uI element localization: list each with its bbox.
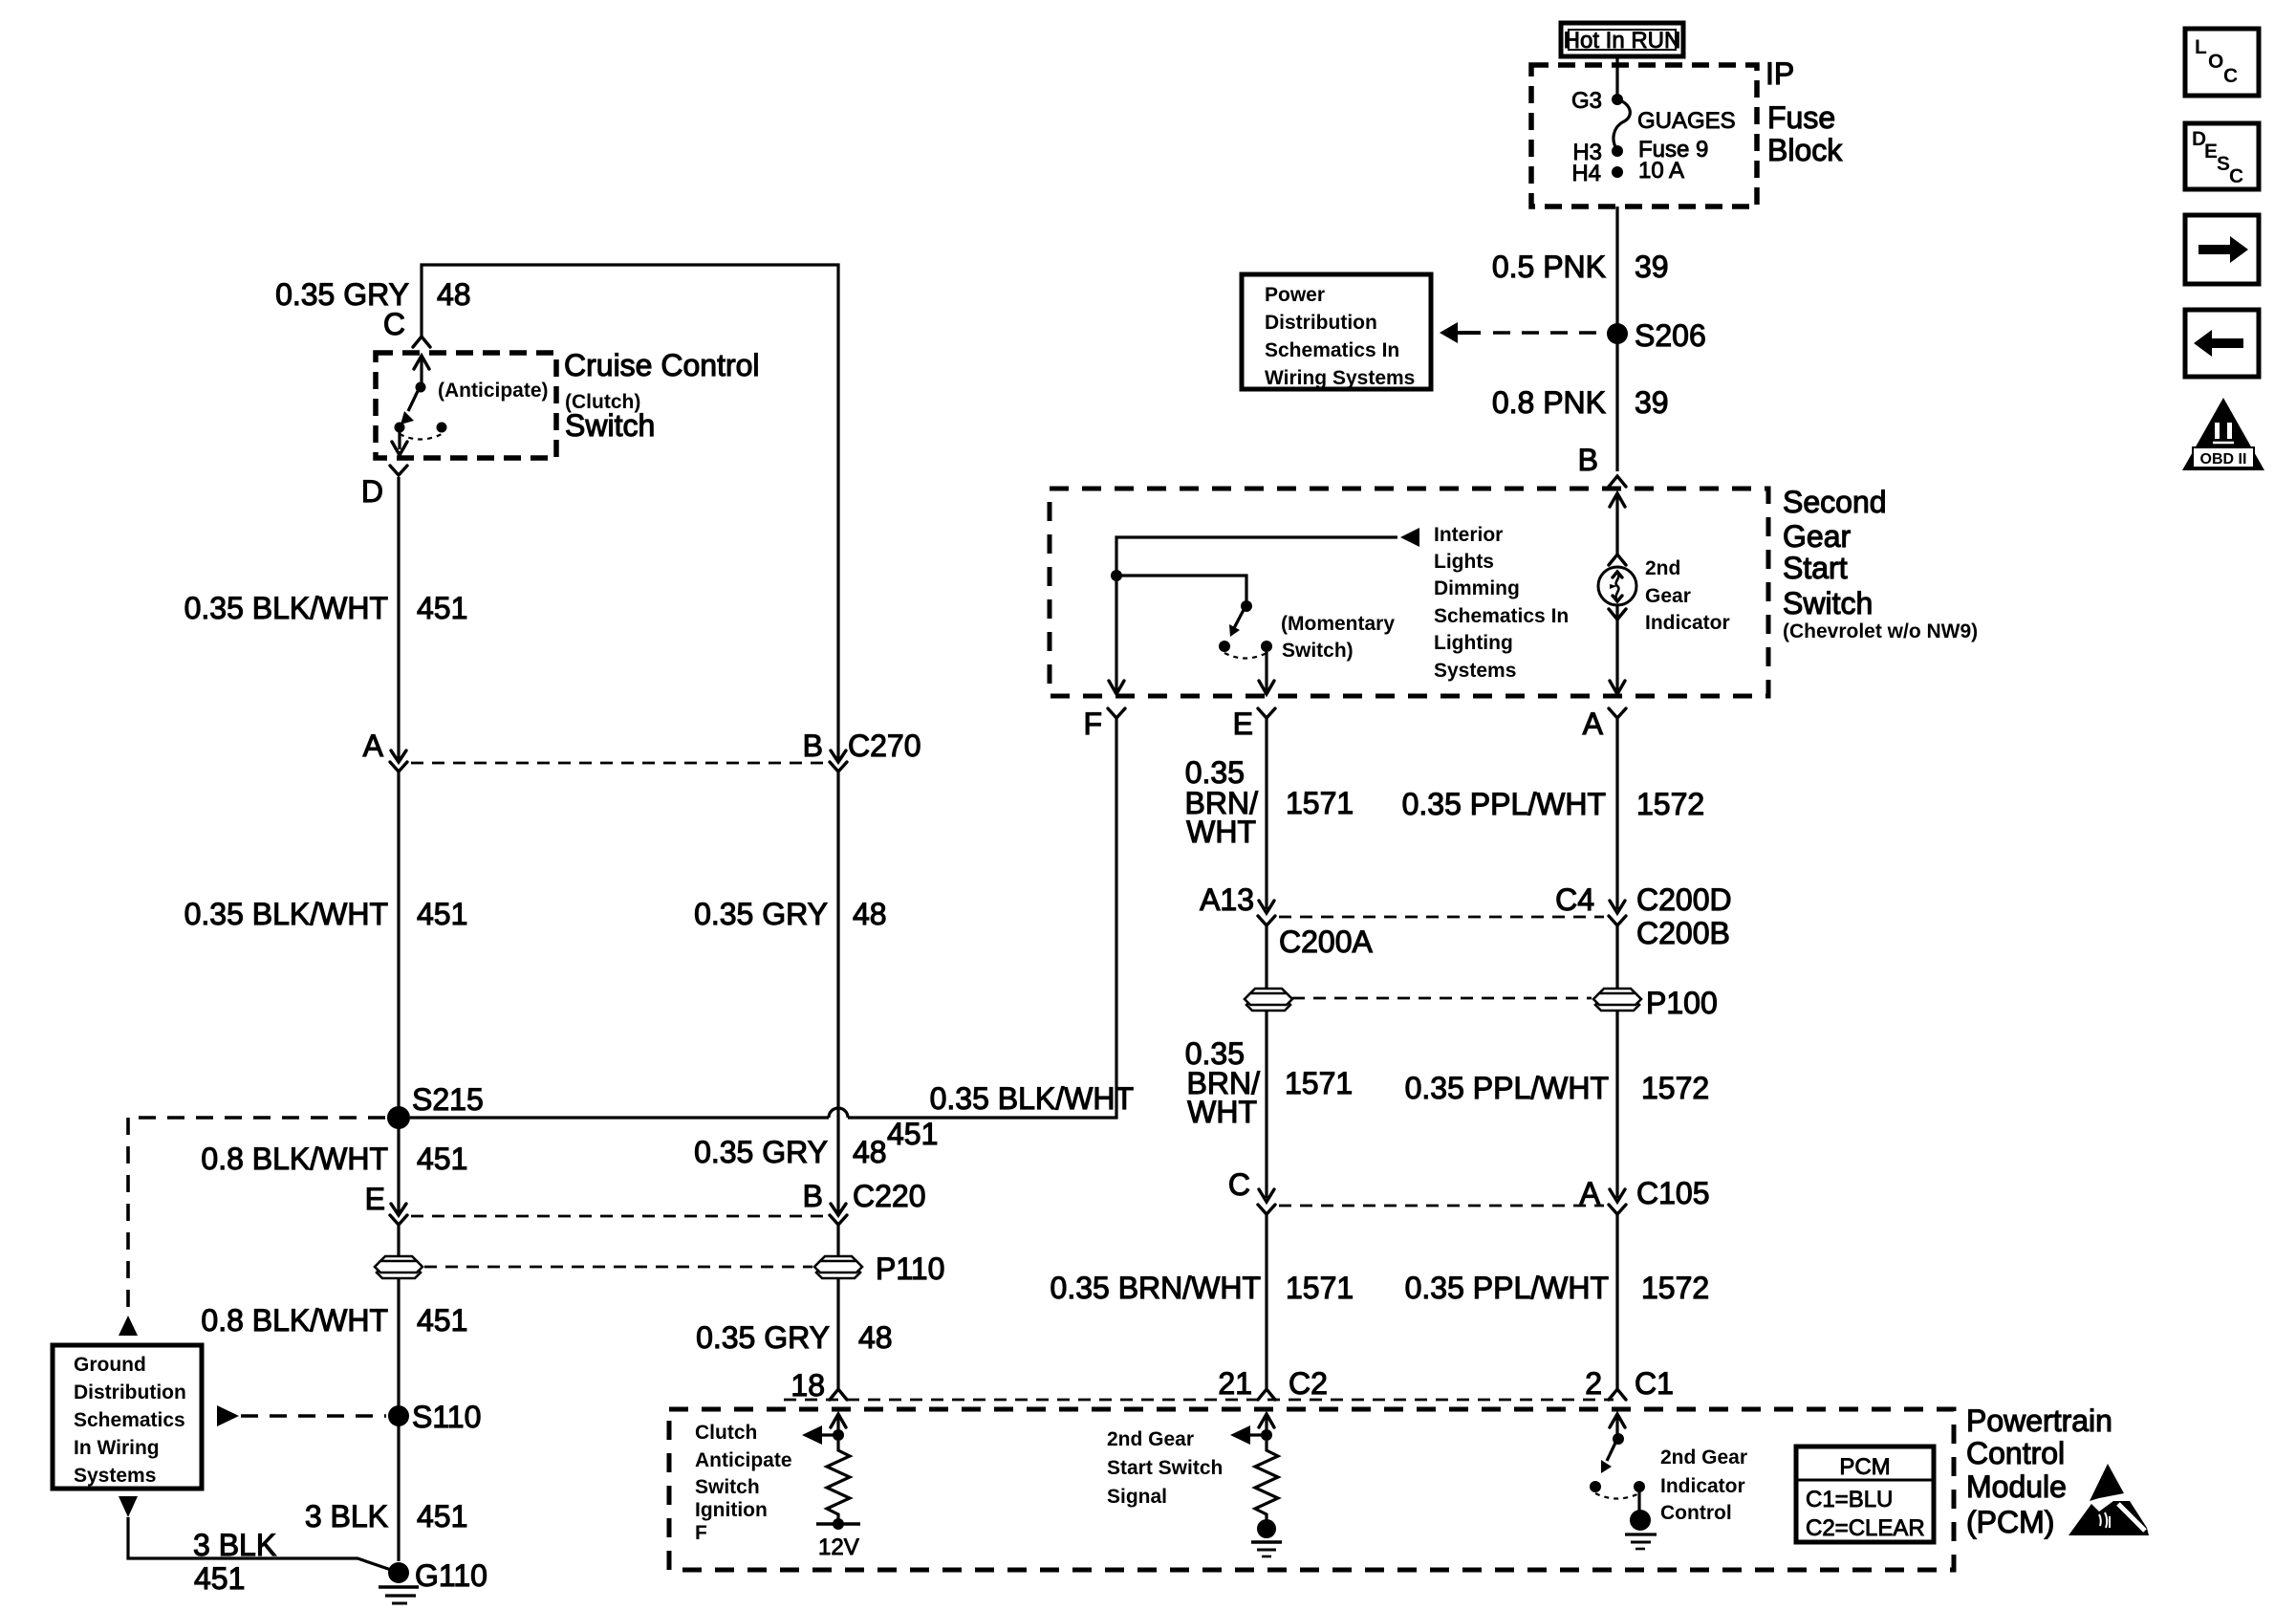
svg-text:C2: C2 — [1289, 1366, 1328, 1401]
svg-text:G3: G3 — [1571, 88, 1602, 114]
svg-text:21: 21 — [1218, 1366, 1252, 1401]
dashed connector line C220 — [411, 1215, 826, 1218]
svg-text:Gear: Gear — [1783, 519, 1851, 554]
svg-text:E: E — [2204, 141, 2218, 163]
svg-text:0.8 BLK/WHT: 0.8 BLK/WHT — [201, 1303, 388, 1338]
svg-text:Start: Start — [1783, 551, 1848, 585]
svg-text:48: 48 — [853, 897, 887, 931]
svg-text:C200D: C200D — [1636, 882, 1732, 917]
svg-text:C: C — [383, 307, 405, 341]
second gear start switch title — [1783, 485, 1978, 642]
svg-text:L: L — [2195, 36, 2207, 58]
wire D to C270, 0.35 BLK/WHT 451 — [184, 477, 468, 762]
svg-text:Control: Control — [1966, 1436, 2065, 1470]
svg-text:Module: Module — [1966, 1469, 2067, 1504]
connector C200A terminal A13 — [1200, 882, 1373, 959]
svg-text:F: F — [1083, 707, 1102, 741]
terminal F below box — [1083, 707, 1125, 741]
svg-text:0.5 PNK: 0.5 PNK — [1492, 250, 1606, 284]
svg-text:451: 451 — [417, 1142, 467, 1176]
wire C220 to P110 left — [397, 1225, 400, 1255]
power distribution reference box — [1242, 274, 1431, 389]
connector C220 terminals E B — [365, 1179, 926, 1216]
connector C270 terminals A B — [363, 729, 921, 763]
svg-text:Cruise Control: Cruise Control — [564, 348, 760, 382]
svg-text:0.35 GRY: 0.35 GRY — [696, 1320, 830, 1355]
svg-text:C4: C4 — [1555, 882, 1594, 917]
svg-text:(Chevrolet w/o NW9): (Chevrolet w/o NW9) — [1783, 620, 1978, 642]
PCM pin 18 arrow and pullup — [802, 1414, 846, 1445]
svg-text:C105: C105 — [1636, 1176, 1710, 1210]
IP fuse block dashed box — [1531, 65, 1757, 207]
svg-text:(Anticipate): (Anticipate) — [438, 380, 549, 402]
dashed connector line C270 — [411, 762, 826, 765]
svg-text:Distribution: Distribution — [74, 1382, 186, 1403]
wire S215 to F with hop over GRY wire, 0.35 BLK/WHT 451 — [410, 718, 1134, 1151]
pin H4 — [1571, 161, 1623, 186]
wire grommet to C105 row, 0.35 BRN/WHT 1571 — [1265, 1010, 1267, 1198]
dashed connector line C105 — [1279, 1205, 1604, 1207]
svg-text:D: D — [361, 474, 383, 509]
svg-text:39: 39 — [1635, 385, 1669, 420]
forward arrow legend icon — [2185, 215, 2259, 284]
wire S215 to C220, 0.8 BLK/WHT 451 — [201, 1118, 467, 1215]
svg-text:Powertrain: Powertrain — [1966, 1403, 2112, 1438]
PCM pin 21 arrow and pulldown — [1230, 1414, 1274, 1445]
svg-text:A: A — [363, 729, 384, 763]
back arrow legend icon — [2185, 310, 2259, 377]
DESC legend icon — [2185, 123, 2259, 189]
svg-text:C: C — [2229, 165, 2243, 187]
svg-text:B: B — [803, 729, 823, 763]
OBD II legend icon — [2182, 398, 2264, 470]
svg-text:G110: G110 — [415, 1558, 487, 1593]
svg-text:0.35: 0.35 — [1185, 755, 1245, 790]
svg-text:Signal: Signal — [1107, 1486, 1167, 1508]
svg-text:WHT: WHT — [1186, 815, 1256, 849]
svg-text:Dimming: Dimming — [1434, 577, 1520, 599]
PCM connector legend box — [1796, 1447, 1934, 1542]
svg-text:Wiring Systems: Wiring Systems — [1265, 367, 1415, 389]
PCM terminal 21 C2 — [1218, 1366, 1328, 1401]
svg-text:48: 48 — [853, 1135, 887, 1169]
svg-text:0.8 BLK/WHT: 0.8 BLK/WHT — [201, 1142, 388, 1176]
svg-text:S: S — [2217, 153, 2230, 175]
dashed vertical to ground distribution box — [119, 1118, 138, 1336]
PCM terminal 18 — [791, 1368, 847, 1403]
connector C105 terminal A — [1580, 1176, 1710, 1214]
second gear start switch dashed box — [1050, 489, 1768, 696]
svg-text:Schematics In: Schematics In — [1265, 339, 1399, 361]
svg-text:H4: H4 — [1571, 161, 1601, 186]
pass-through grommet P110 right — [814, 1251, 944, 1286]
svg-text:F: F — [695, 1522, 707, 1544]
PCM pin 2 arrow — [1610, 1414, 1625, 1437]
svg-text:E: E — [365, 1182, 385, 1216]
clutch anticipate switch ignition label — [695, 1422, 792, 1544]
wire C200A to grommet — [1265, 925, 1267, 989]
svg-text:3 BLK: 3 BLK — [305, 1499, 388, 1534]
svg-text:C1=BLU: C1=BLU — [1806, 1487, 1893, 1512]
svg-text:451: 451 — [887, 1117, 938, 1151]
ground distribution reference box — [53, 1345, 202, 1489]
svg-text:Start Switch: Start Switch — [1107, 1457, 1223, 1479]
svg-text:IP: IP — [1765, 56, 1794, 91]
svg-text:2nd: 2nd — [1645, 557, 1680, 579]
Hot In RUN feed box — [1561, 23, 1683, 56]
wire C270 to S215, 0.35 BLK/WHT 451 — [184, 772, 468, 1118]
interior lights feed wire — [1111, 528, 1419, 691]
svg-text:Switch: Switch — [695, 1476, 760, 1498]
svg-text:0.35 BLK/WHT: 0.35 BLK/WHT — [930, 1081, 1134, 1116]
svg-text:Switch): Switch) — [1282, 640, 1354, 662]
2nd gear indicator label — [1645, 557, 1730, 634]
wire from Hot In RUN into fuse block — [1615, 56, 1618, 97]
svg-text:Lighting: Lighting — [1434, 632, 1513, 654]
svg-text:GUAGES: GUAGES — [1637, 108, 1736, 134]
wire C270 to C220, 0.35 GRY 48 — [694, 772, 887, 1212]
pass-through grommet P100 — [1593, 986, 1718, 1020]
wire label 0.35 GRY 48 above C220 — [694, 1135, 887, 1215]
wire P100 to C105, 0.35 PPL/WHT 1572 — [1615, 1010, 1618, 1198]
svg-text:Schematics In: Schematics In — [1434, 605, 1569, 627]
svg-text:Power: Power — [1265, 284, 1325, 306]
resistor to 12V — [816, 1441, 860, 1560]
svg-text:A: A — [1583, 707, 1604, 741]
pin arrow out of cruise switch — [392, 432, 407, 455]
ground G110 — [379, 1558, 487, 1603]
dashed reference S206 to power distribution — [1440, 322, 1607, 343]
svg-text:3 BLK: 3 BLK — [193, 1528, 276, 1562]
svg-text:C: C — [1228, 1167, 1250, 1202]
svg-text:Switch: Switch — [565, 408, 655, 443]
svg-text:C200B: C200B — [1636, 916, 1730, 950]
svg-text:Ignition: Ignition — [695, 1499, 768, 1521]
wire P110 to 18, 0.35 GRY 48 — [696, 1278, 893, 1388]
wire S206 down, 0.8 PNK 39 — [1615, 340, 1618, 471]
terminal C of cruise switch — [383, 307, 430, 347]
pass-through grommet on BRN/WHT — [1245, 989, 1292, 1011]
svg-text:48: 48 — [437, 277, 471, 312]
svg-text:12V: 12V — [818, 1534, 859, 1560]
wire A to C200D, 0.35 PPL/WHT 1572 — [1615, 718, 1618, 909]
pin F arrow inside box — [1109, 681, 1124, 694]
svg-text:Anticipate: Anticipate — [695, 1449, 792, 1471]
dashed reference S215 to ground distribution — [139, 1116, 386, 1120]
powertrain control module title — [1966, 1403, 2112, 1539]
svg-text:Schematics: Schematics — [74, 1409, 185, 1431]
resistor to ground — [1251, 1441, 1282, 1556]
wire C105 to PCM, 0.35 BRN/WHT 1571 — [1265, 1214, 1267, 1388]
svg-text:B: B — [803, 1179, 823, 1213]
svg-text:451: 451 — [417, 897, 467, 931]
svg-text:C1: C1 — [1635, 1366, 1674, 1401]
fuse label GUAGES Fuse 9 10 A — [1637, 108, 1736, 184]
PCM terminal 2 C1 — [1585, 1366, 1674, 1401]
2nd gear indicator lamp — [1598, 555, 1636, 620]
svg-text:0.35 PPL/WHT: 0.35 PPL/WHT — [1405, 1271, 1609, 1305]
svg-text:S110: S110 — [412, 1400, 481, 1434]
svg-text:451: 451 — [417, 1499, 467, 1534]
svg-text:C200A: C200A — [1279, 925, 1374, 959]
svg-text:OBD II: OBD II — [2200, 451, 2247, 468]
splice S110 — [388, 1400, 481, 1434]
svg-text:PCM: PCM — [1839, 1454, 1890, 1480]
svg-text:A13: A13 — [1200, 882, 1254, 917]
terminal A below box — [1583, 707, 1626, 741]
terminal E below box — [1233, 707, 1275, 741]
svg-text:451: 451 — [417, 591, 467, 625]
svg-text:1572: 1572 — [1641, 1071, 1709, 1105]
wire ground box to G110, 3 BLK 451 — [119, 1496, 391, 1596]
svg-text:48: 48 — [858, 1320, 893, 1355]
svg-text:1572: 1572 — [1641, 1271, 1709, 1305]
svg-text:1571: 1571 — [1286, 1271, 1354, 1305]
svg-text:P110: P110 — [876, 1251, 944, 1286]
svg-text:Indicator: Indicator — [1645, 612, 1730, 634]
svg-text:0.35 PPL/WHT: 0.35 PPL/WHT — [1405, 1071, 1609, 1105]
svg-text:P100: P100 — [1646, 986, 1718, 1020]
svg-text:(Momentary: (Momentary — [1281, 613, 1395, 635]
dashed line C200A grommet to P100 — [1292, 997, 1592, 1000]
svg-text:0.35 BLK/WHT: 0.35 BLK/WHT — [184, 897, 388, 931]
svg-text:Lights: Lights — [1434, 551, 1494, 573]
svg-text:10 A: 10 A — [1638, 158, 1684, 184]
svg-text:Fuse: Fuse — [1767, 100, 1835, 135]
fuse F9 element — [1614, 99, 1630, 150]
svg-text:Switch: Switch — [1783, 586, 1873, 620]
svg-text:S215: S215 — [412, 1082, 484, 1117]
svg-text:(PCM): (PCM) — [1966, 1505, 2054, 1539]
svg-text:0.35 GRY: 0.35 GRY — [694, 1135, 828, 1169]
svg-text:39: 39 — [1635, 250, 1669, 284]
LOC legend icon — [2185, 29, 2259, 96]
PCM dashed box — [669, 1409, 1954, 1570]
splice S215 — [387, 1082, 484, 1129]
svg-text:1571: 1571 — [1286, 786, 1354, 820]
wire E to C200A, 0.35 BRN/WHT 1571 — [1265, 718, 1267, 909]
wire P110 to S110, 0.8 BLK/WHT 451 — [201, 1278, 467, 1561]
wire C105 to PCM, 0.35 PPL/WHT 1572 — [1615, 1214, 1618, 1388]
top wire cruise switch to C270 branch — [422, 265, 838, 759]
ESD sensitive symbol — [2069, 1464, 2149, 1535]
svg-text:Gear: Gear — [1645, 585, 1691, 607]
svg-text:O: O — [2208, 51, 2223, 73]
connector C200D/C200B terminal C4 — [1555, 882, 1732, 950]
svg-text:Clutch: Clutch — [695, 1422, 757, 1444]
svg-text:B: B — [1578, 443, 1598, 477]
svg-text:Block: Block — [1767, 133, 1843, 167]
svg-text:0.35 BLK/WHT: 0.35 BLK/WHT — [184, 591, 388, 625]
svg-text:2: 2 — [1585, 1366, 1602, 1401]
svg-text:WHT: WHT — [1187, 1095, 1257, 1129]
svg-text:1572: 1572 — [1636, 787, 1704, 821]
svg-text:2nd Gear: 2nd Gear — [1660, 1447, 1747, 1469]
cruise switch contacts and blade — [395, 382, 447, 440]
wire S110 to G110, 3 BLK 451 — [305, 1499, 468, 1534]
svg-text:Ground: Ground — [74, 1354, 146, 1376]
svg-text:0.8 PNK: 0.8 PNK — [1492, 385, 1606, 420]
wire label 0.35 GRY 48 top — [275, 277, 471, 312]
wire fuse block to S206, 0.5 PNK 39 — [1615, 207, 1618, 328]
2nd gear indicator control driver switch — [1590, 1433, 1657, 1549]
dashed connector line C200 — [1279, 916, 1604, 919]
wire indicator to pin A arrow — [1610, 620, 1625, 694]
connector C105 terminal C — [1228, 1167, 1275, 1214]
svg-text:S206: S206 — [1635, 318, 1706, 353]
svg-text:Control: Control — [1660, 1502, 1732, 1524]
svg-text:0.35 GRY: 0.35 GRY — [694, 897, 828, 931]
splice S206 — [1607, 318, 1706, 353]
momentary switch — [1219, 600, 1272, 659]
svg-text:0.35 BRN/WHT: 0.35 BRN/WHT — [1051, 1271, 1261, 1305]
pin H3 — [1572, 140, 1623, 165]
svg-text:Systems: Systems — [74, 1465, 156, 1487]
terminal B of second gear switch — [1578, 443, 1626, 487]
pass-through grommet P110 left — [375, 1256, 422, 1278]
wire momentary switch to pin E arrow — [1259, 652, 1274, 694]
svg-text:0.35 PPL/WHT: 0.35 PPL/WHT — [1402, 787, 1606, 821]
svg-text:18: 18 — [791, 1368, 825, 1403]
thin connector dashed line at PCM — [784, 1399, 1614, 1402]
svg-text:In Wiring: In Wiring — [74, 1437, 160, 1459]
svg-text:E: E — [1233, 707, 1253, 741]
cruise control switch dashed box — [376, 353, 556, 458]
IP Fuse Block label — [1765, 56, 1843, 167]
svg-text:2nd Gear: 2nd Gear — [1107, 1428, 1194, 1450]
svg-text:Interior: Interior — [1434, 524, 1503, 546]
svg-text:Distribution: Distribution — [1265, 312, 1377, 334]
svg-text:C220: C220 — [853, 1179, 926, 1213]
dashed line P110 — [424, 1266, 812, 1269]
svg-text:Systems: Systems — [1434, 660, 1516, 682]
svg-text:Indicator: Indicator — [1660, 1475, 1745, 1497]
svg-text:C270: C270 — [848, 729, 921, 763]
cruise control switch title — [564, 348, 760, 443]
2nd gear indicator control label — [1660, 1447, 1747, 1524]
wire C200B to P100 — [1615, 925, 1618, 989]
pin arrow into cruise switch — [414, 356, 429, 386]
female chevrons C220 — [390, 1215, 847, 1225]
svg-text:451: 451 — [417, 1303, 467, 1338]
momentary switch label — [1281, 613, 1395, 662]
terminal D of cruise switch — [361, 466, 407, 509]
pin G3 — [1571, 88, 1623, 114]
2nd gear start switch signal label — [1107, 1428, 1223, 1508]
interior lights reference text — [1434, 524, 1569, 682]
wire C220 to P110 right — [836, 1225, 839, 1255]
svg-text:Second: Second — [1783, 485, 1887, 519]
pin B arrow inside box — [1610, 493, 1625, 555]
svg-text:Hot In RUN: Hot In RUN — [1564, 28, 1681, 54]
svg-text:451: 451 — [194, 1561, 245, 1596]
dashed reference box to S110 — [217, 1405, 386, 1426]
momentary switch feed wire — [1116, 576, 1246, 602]
svg-text:C2=CLEAR: C2=CLEAR — [1806, 1515, 1925, 1541]
svg-text:C: C — [2223, 65, 2238, 87]
female chevrons C270 — [390, 762, 847, 772]
svg-text:1571: 1571 — [1285, 1066, 1353, 1100]
